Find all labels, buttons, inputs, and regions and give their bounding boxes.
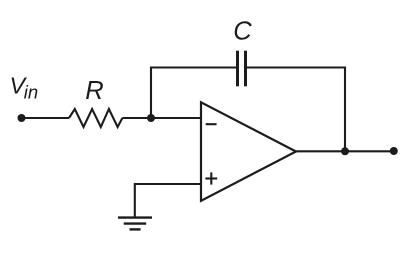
node A junction dot (147, 114, 155, 122)
wire non-inverting input from ground riser (135, 184, 201, 217)
output junction dot (341, 147, 349, 155)
capacitor C plates (238, 51, 246, 87)
wire node A up and left feedback run to capacitor (151, 68, 236, 119)
output terminal dot (390, 147, 398, 155)
wire capacitor right run and down to output node (247, 68, 345, 152)
op-amp plus sign (205, 177, 217, 179)
op-amp minus sign (206, 123, 217, 125)
resistor R (69, 109, 122, 127)
op-amp U1 triangle (201, 102, 296, 201)
wire Vin input to resistor (22, 117, 70, 119)
svg-text:R: R (85, 77, 103, 105)
wire output (296, 150, 394, 152)
svg-text:Vin: Vin (10, 73, 39, 103)
wire resistor to inverting input node (122, 117, 201, 119)
svg-text:C: C (233, 18, 252, 46)
ground (118, 218, 152, 230)
input terminal dot (18, 114, 26, 122)
